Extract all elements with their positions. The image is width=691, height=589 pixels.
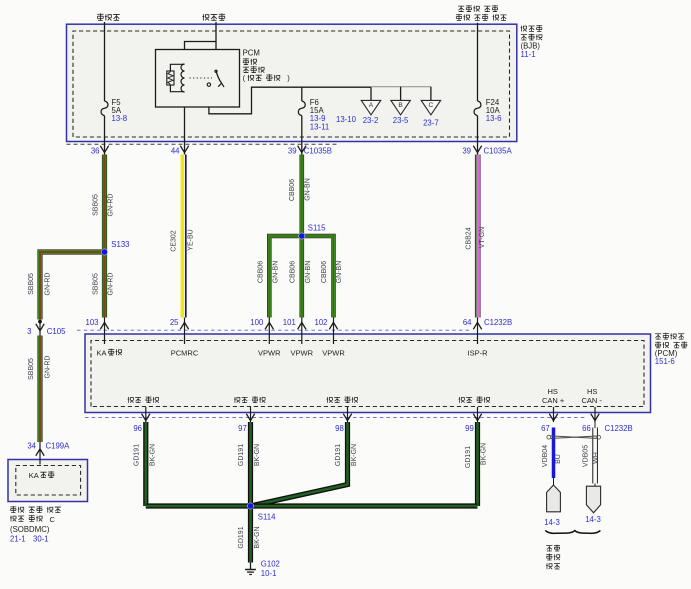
fuse F24 10A (474, 101, 481, 116)
svg-text:ISP-R: ISP-R (467, 348, 488, 357)
svg-text:CBB06: CBB06 (258, 261, 265, 283)
PCM pin 67 (553, 407, 555, 422)
svg-text:21-1: 21-1 (10, 534, 26, 543)
relay coil (181, 64, 185, 92)
svg-text:C: C (429, 102, 434, 109)
svg-text:13-6: 13-6 (486, 114, 502, 123)
svg-text:VPWR: VPWR (322, 348, 345, 357)
svg-text:VDB04: VDB04 (542, 445, 549, 467)
relay switch blade (216, 71, 222, 84)
wire CE302 YE-BU (181, 155, 185, 318)
label: power ground (327, 397, 333, 403)
svg-text:98: 98 (335, 424, 344, 433)
wire: start/run feed through F24 (477, 23, 479, 101)
svg-text:BK-GN: BK-GN (254, 526, 261, 548)
svg-text:13-11: 13-11 (310, 123, 329, 132)
connector pin 36 (C1035B) (100, 146, 108, 153)
PCM pin 100 (268, 318, 270, 345)
svg-text:64: 64 (463, 318, 472, 327)
ground G102 (250, 563, 252, 570)
svg-text:99: 99 (465, 424, 474, 433)
svg-text:3: 3 (27, 327, 31, 336)
svg-text:BK-GN: BK-GN (254, 444, 261, 466)
svg-text:GN-RD: GN-RD (108, 273, 115, 296)
svg-text:PCMRC: PCMRC (171, 348, 199, 357)
svg-text:151-6: 151-6 (655, 357, 675, 366)
svg-text:CBB24: CBB24 (465, 227, 472, 249)
connector C1232B dashed line (PCM top) (77, 329, 472, 331)
svg-text:C105: C105 (47, 327, 66, 336)
wire SBB05 GN-RD branch to SOBDMC (40, 252, 105, 320)
wire: F6 drop (301, 87, 303, 101)
splice S114 (247, 503, 253, 509)
PCM pin 99 (477, 407, 479, 422)
PCM module box (85, 334, 651, 413)
svg-text:CAN +: CAN + (542, 396, 565, 405)
wire SBB05 GN-RD (pin36 to S133 to PCM pin103) (102, 155, 107, 318)
off-page arrow 14-3 (CAN-) (586, 486, 600, 513)
svg-text:G102: G102 (261, 559, 280, 568)
svg-text:97: 97 (238, 424, 247, 433)
BJB battery junction box (67, 24, 517, 141)
svg-text:101: 101 (283, 318, 296, 327)
label: hot at all times (1) (97, 13, 103, 20)
wire CBB06 GN-BN S115 distribution to VPWR pins (269, 236, 333, 318)
svg-text:PCM: PCM (243, 49, 260, 58)
svg-text:BK-GN: BK-GN (351, 444, 358, 466)
svg-text:34: 34 (27, 442, 36, 451)
svg-text:C1232B: C1232B (484, 318, 512, 327)
PCM pin 97 (250, 407, 252, 422)
svg-text:VDB05: VDB05 (582, 445, 589, 467)
label: hot at all times (2) (202, 14, 209, 20)
connector pin 39 (C1035A) (473, 146, 481, 153)
fuse F6 15A (298, 101, 305, 116)
svg-text:CBB06: CBB06 (290, 261, 297, 283)
svg-text:C1035B: C1035B (304, 147, 332, 156)
svg-text:C1232B: C1232B (605, 424, 633, 433)
svg-text:SBB05: SBB05 (92, 273, 99, 295)
label: module communication network (546, 546, 552, 552)
svg-text:C199A: C199A (46, 442, 71, 451)
off-page arrow B (391, 100, 410, 115)
svg-text:VT-GN: VT-GN (479, 227, 486, 248)
relay switch contact (207, 83, 210, 86)
relay actuation dotted link (190, 77, 213, 79)
PCM pin 96 (145, 407, 147, 422)
splice S115 (299, 233, 305, 239)
svg-text:KA: KA (29, 471, 39, 480)
off-page arrow C (421, 100, 440, 115)
wire CBB24 VT-GN (474, 155, 476, 318)
connector C1232B dashed line (PCM bottom) (85, 416, 586, 418)
label: power ground (128, 397, 134, 403)
svg-text:23-2: 23-2 (363, 116, 379, 125)
resistor parallel links (170, 64, 184, 71)
svg-text:25: 25 (170, 318, 179, 327)
svg-text:CAN -: CAN - (582, 396, 603, 405)
svg-text:13-8: 13-8 (112, 114, 128, 123)
off-page arrow 14-3 (CAN+) (547, 485, 561, 512)
svg-text:BU: BU (555, 454, 562, 464)
svg-text:13-10: 13-10 (336, 115, 357, 124)
svg-text:23-7: 23-7 (423, 118, 439, 127)
wire: stem to arrow C (430, 87, 432, 101)
svg-text:HS: HS (548, 387, 558, 396)
svg-text:14-3: 14-3 (544, 518, 560, 527)
wire GD191 BK-GN pin99 (475, 422, 480, 506)
svg-text:103: 103 (85, 318, 98, 327)
relay suppression resistor (167, 71, 174, 85)
label: BJB (521, 26, 527, 32)
svg-text:GN-BN: GN-BN (304, 178, 311, 201)
label: hot in start or run (line2) (456, 14, 462, 21)
wire GD191 BK-GN pin98 (diagonal to S114) (251, 422, 348, 506)
PCM pin 101 (301, 318, 303, 345)
relay: PCM power relay box (156, 50, 240, 108)
wire VDB04 BU (HS CAN+) (552, 428, 556, 479)
wire: diode distribution bus (371, 86, 431, 88)
svg-text:CBB06: CBB06 (321, 261, 328, 283)
svg-text:66: 66 (582, 424, 591, 433)
svg-text:YE-BU: YE-BU (187, 229, 194, 250)
svg-text:39: 39 (288, 147, 297, 156)
svg-text:GD191: GD191 (238, 444, 245, 466)
svg-text:96: 96 (133, 424, 142, 433)
wire: relay output to F6/diode bus (209, 86, 371, 114)
wire: relay coil feed jog (185, 42, 217, 65)
svg-text:GN-RD: GN-RD (44, 273, 51, 296)
svg-text:GD191: GD191 (465, 446, 472, 468)
svg-text:WH: WH (593, 452, 600, 464)
fuse F5 5A (101, 101, 108, 116)
connector C199A pin 34 / SOBDMC entry (39, 442, 41, 465)
svg-text:102: 102 (314, 318, 327, 327)
svg-text:GD191: GD191 (133, 444, 140, 466)
svg-text:GN-BN: GN-BN (336, 261, 343, 284)
label: SOBDMC module name (10, 506, 16, 513)
svg-text:VPWR: VPWR (291, 348, 314, 357)
svg-text:A: A (369, 102, 374, 109)
wire: stem to arrow B (400, 87, 402, 101)
off-page arrow A (361, 100, 380, 115)
label: PCM module name (655, 334, 661, 340)
svg-text:GN-BN: GN-BN (273, 261, 280, 284)
brace: module communication network (545, 530, 600, 533)
svg-text:SBB05: SBB05 (28, 358, 35, 380)
svg-text:44: 44 (171, 147, 180, 156)
wire GD191 BK-GN pin96 (143, 422, 148, 506)
PCM pin 102 (333, 318, 335, 345)
svg-text:HS: HS (587, 387, 597, 396)
svg-text:SBB05: SBB05 (28, 273, 35, 295)
svg-text:C1035A: C1035A (484, 147, 513, 156)
svg-text:B: B (398, 102, 403, 109)
svg-text:CE302: CE302 (170, 230, 177, 252)
svg-text:11-1: 11-1 (521, 50, 536, 59)
svg-text:100: 100 (250, 318, 264, 327)
wire: hot-at-all-times feed 2 into relay switch (215, 22, 217, 71)
svg-text:23-5: 23-5 (393, 116, 409, 125)
connector pin 39 (C1035B) (298, 146, 306, 153)
svg-text:BK-GN: BK-GN (481, 443, 488, 465)
wire CBB06 GN-BN (pin39 to S115) (299, 155, 304, 233)
twisted pair symbol (547, 435, 551, 439)
PCM pin 25 (184, 318, 186, 345)
svg-text:GD191: GD191 (238, 526, 245, 548)
svg-text:GN-BN: GN-BN (305, 261, 312, 284)
svg-text:BK-GN: BK-GN (149, 444, 156, 466)
wire GD191 BK-GN pin97 (248, 422, 253, 506)
svg-text:(SOBDMC): (SOBDMC) (10, 525, 50, 534)
wire: stem to arrow A (370, 87, 372, 100)
PCM pin 64 (477, 318, 479, 345)
PCM pin 98 (347, 407, 349, 422)
svg-text:VPWR: VPWR (258, 348, 281, 357)
label: hot in start or run (line1) (458, 6, 464, 12)
PCM pin 103 (104, 318, 106, 345)
svg-text:S114: S114 (258, 512, 276, 521)
svg-text:SBB05: SBB05 (92, 194, 99, 216)
splice S133 (101, 249, 107, 255)
label: power ground (234, 397, 240, 403)
PCM pin 66 (594, 407, 596, 422)
wire GD191 BK-GN S114 to G102 (248, 506, 253, 563)
connector C105 pin 3 (39, 320, 41, 336)
connector pin 44 (C1035B) (180, 146, 188, 153)
svg-text:GN-RD: GN-RD (108, 194, 115, 217)
svg-text:C: C (50, 515, 56, 524)
svg-text:CBB06: CBB06 (289, 179, 296, 201)
connector C1035B dashed line (67, 143, 340, 145)
label: power ground (459, 397, 465, 403)
svg-text:30-1: 30-1 (33, 534, 49, 543)
svg-text:39: 39 (462, 147, 471, 156)
svg-text:36: 36 (91, 147, 100, 156)
svg-text:67: 67 (541, 424, 550, 433)
svg-text:S115: S115 (308, 224, 326, 233)
svg-text:KA: KA (97, 348, 107, 357)
svg-text:GN-RD: GN-RD (44, 356, 51, 379)
svg-text:14-3: 14-3 (585, 515, 601, 524)
SOBDMC module box (8, 460, 88, 502)
wire GD191 BK-GN ground bus (146, 503, 478, 508)
svg-text:10-1: 10-1 (261, 569, 277, 578)
wire VDB05 WH (HS CAN-) (594, 422, 596, 428)
svg-text:GD191: GD191 (335, 444, 342, 466)
wire: hot-at-all-times feed 1 (104, 22, 106, 101)
svg-text:S133: S133 (111, 240, 129, 249)
wire: relay coil to pin 44 (184, 92, 186, 155)
